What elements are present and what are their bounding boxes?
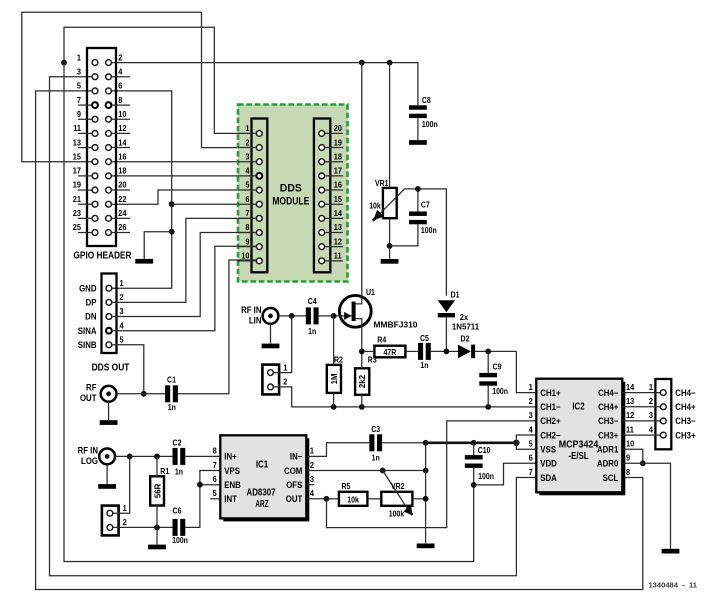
svg-text:6: 6 (245, 194, 250, 204)
svg-text:5: 5 (77, 81, 82, 91)
capacitor C8 (409, 105, 427, 118)
svg-text:CH1+: CH1+ (540, 387, 560, 398)
svg-text:SINA: SINA (78, 325, 97, 336)
svg-text:2: 2 (118, 53, 123, 63)
svg-text:DDS: DDS (280, 182, 302, 195)
connector JP1 (RF IN LIN jumper) (262, 363, 287, 394)
capacitor C9 (479, 351, 497, 407)
svg-text:IN−: IN− (290, 451, 302, 462)
label R4 value (384, 348, 397, 358)
label VR2 value (389, 509, 405, 519)
connector RF IN LIN (263, 308, 279, 324)
svg-text:2: 2 (123, 518, 128, 528)
svg-text:13: 13 (334, 223, 343, 233)
svg-text:1n: 1n (308, 327, 317, 337)
label C4 (308, 297, 318, 336)
wire JP1 pin1 to RF IN LIN node (273, 316, 291, 373)
svg-text:ADR0: ADR0 (597, 458, 619, 469)
wire GPIO6 ground drop (111, 91, 174, 288)
svg-text:6: 6 (213, 475, 218, 485)
label R4 (377, 335, 387, 345)
label R1 value (153, 483, 162, 498)
label C2 (173, 438, 184, 476)
svg-text:13: 13 (73, 138, 82, 148)
label 2x 1N5711 (452, 312, 480, 331)
wire net 5V GPIO2 row (111, 60, 418, 106)
svg-text:LOG: LOG (81, 456, 98, 467)
svg-text:COM: COM (284, 465, 302, 476)
svg-text:100n: 100n (492, 387, 508, 397)
svg-text:U1: U1 (366, 288, 375, 298)
svg-text:15: 15 (334, 194, 343, 204)
svg-text:7: 7 (77, 95, 82, 105)
svg-text:7: 7 (529, 467, 534, 477)
svg-text:IN+: IN+ (224, 451, 236, 462)
svg-text:SDA: SDA (540, 472, 557, 483)
svg-text:10: 10 (118, 110, 127, 120)
svg-text:1n: 1n (372, 453, 381, 463)
svg-text:10: 10 (626, 439, 635, 449)
capacitor C5 (418, 343, 431, 360)
svg-text:2: 2 (245, 138, 250, 148)
label RF OUT (80, 382, 97, 403)
wire JP1 pin2 to CH1- rail (273, 387, 536, 410)
resistor R1 (150, 456, 164, 527)
svg-text:10k: 10k (347, 495, 359, 505)
svg-text:C6: C6 (173, 506, 182, 516)
svg-text:100n: 100n (172, 535, 188, 545)
label IC2 (572, 401, 584, 413)
label R2 (334, 355, 343, 365)
label D2 (461, 334, 470, 344)
svg-text:6: 6 (118, 81, 123, 91)
wire GPIO18 to DDS pin4 (111, 175, 256, 177)
svg-text:VPS: VPS (224, 465, 240, 476)
wire C6 to VPS and ENB (185, 471, 220, 528)
svg-text:MMBFJ310: MMBFJ310 (374, 320, 419, 330)
wire C5 to D2 junction (431, 349, 458, 355)
svg-text:VR2: VR2 (391, 482, 405, 492)
wire C3 to VSS bus thin part (382, 442, 425, 444)
svg-text:CH4+: CH4+ (675, 402, 695, 413)
svg-text:3: 3 (529, 411, 534, 421)
svg-text:1: 1 (529, 382, 534, 392)
capacitor C3 (369, 434, 382, 451)
diode D2 (458, 345, 475, 359)
svg-text:R2: R2 (334, 355, 343, 365)
svg-text:CH2−: CH2− (540, 430, 560, 441)
svg-text:5: 5 (213, 489, 218, 499)
svg-text:1: 1 (123, 504, 128, 514)
svg-text:C3: C3 (371, 424, 380, 434)
DDS module left pin header (238, 119, 267, 273)
svg-text:VR1: VR1 (375, 178, 389, 188)
ground under ADR0 (662, 549, 680, 554)
label R5 value (347, 495, 359, 505)
svg-text:SCL: SCL (603, 472, 619, 483)
svg-text:AD8307: AD8307 (246, 487, 275, 499)
svg-text:19: 19 (334, 138, 343, 148)
svg-text:IC1: IC1 (256, 459, 269, 471)
svg-text:CH4−: CH4− (598, 387, 618, 398)
svg-text:20: 20 (118, 180, 127, 190)
svg-text:C9: C9 (493, 362, 502, 372)
IC1 pin labels (213, 446, 315, 504)
svg-text:1: 1 (310, 446, 315, 456)
svg-text:CH1−: CH1− (540, 402, 560, 413)
svg-text:SINB: SINB (78, 340, 97, 351)
svg-text:26: 26 (118, 223, 127, 233)
svg-text:11: 11 (626, 425, 634, 435)
wire VR1 bottom to ground (387, 218, 393, 259)
svg-text:2: 2 (283, 377, 288, 387)
svg-text:4: 4 (245, 166, 250, 176)
svg-text:1n: 1n (420, 360, 429, 370)
svg-text:CH4−: CH4− (675, 387, 695, 398)
svg-text:12: 12 (118, 124, 127, 134)
label C3 (371, 424, 380, 462)
wire RF OUT ground stem (108, 402, 110, 420)
IC2 pin labels (529, 382, 635, 483)
label R5 (342, 482, 351, 492)
capacitor C1 (165, 385, 178, 402)
wire ADR0 to ground (622, 463, 670, 548)
svg-text:14: 14 (334, 209, 343, 219)
svg-text:18: 18 (118, 166, 127, 176)
svg-text:21: 21 (73, 194, 82, 204)
label U1 (366, 288, 375, 298)
potentiometer VR2 (381, 471, 412, 516)
wire RF IN LOG ground stem (106, 464, 108, 484)
svg-text:11: 11 (334, 251, 342, 261)
svg-text:C2: C2 (173, 438, 182, 448)
svg-text:1n: 1n (168, 403, 177, 413)
ground under RF OUT (100, 420, 118, 425)
svg-text:3: 3 (310, 475, 315, 485)
wire JP2 pin1 up to IN+ node (113, 456, 130, 513)
svg-text:3: 3 (77, 67, 82, 77)
svg-text:4: 4 (529, 425, 534, 435)
svg-text:CH4+: CH4+ (598, 402, 618, 413)
svg-text:2: 2 (529, 397, 534, 407)
connector RF IN LOG (99, 449, 115, 465)
label R3 value (358, 374, 367, 388)
svg-text:1M: 1M (330, 373, 339, 384)
svg-text:17: 17 (334, 166, 343, 176)
svg-text:1: 1 (120, 278, 125, 288)
svg-text:D1: D1 (451, 290, 460, 300)
wire DDS pin6 to ground vertical (172, 203, 257, 205)
svg-text:2: 2 (310, 460, 315, 470)
wire IC1 INT stub (210, 498, 220, 500)
potentiometer VR1 (373, 188, 447, 296)
diode D1 (438, 300, 455, 351)
svg-text:4: 4 (118, 67, 123, 77)
svg-text:VSS: VSS (540, 444, 556, 455)
svg-text:CH3−: CH3− (675, 416, 695, 427)
svg-text:C8: C8 (422, 96, 431, 106)
label C9 (492, 362, 508, 396)
svg-text:2k2: 2k2 (358, 374, 367, 388)
svg-text:100k: 100k (389, 509, 405, 519)
svg-text:C7: C7 (421, 200, 430, 210)
svg-text:C10: C10 (478, 445, 491, 455)
svg-text:47R: 47R (384, 348, 397, 358)
wire D2 to C9 node (475, 349, 516, 355)
svg-text:56R: 56R (153, 483, 162, 498)
DDS module right pin header (314, 119, 343, 273)
svg-text:9: 9 (245, 237, 250, 247)
wire C8 to ground (417, 118, 419, 140)
svg-text:3: 3 (120, 307, 125, 317)
svg-text:ADR1: ADR1 (597, 444, 619, 455)
connector GPIO HEADER (73, 48, 130, 246)
DDS module outline (green dashed) (238, 105, 348, 282)
svg-text:6: 6 (529, 453, 534, 463)
svg-text:24: 24 (118, 209, 127, 219)
svg-text:1340484 - 11: 1340484 - 11 (648, 581, 697, 590)
wire 5V drop to VR1 (389, 63, 391, 188)
capacitor C2 (173, 448, 186, 465)
svg-text:RF IN: RF IN (241, 305, 261, 316)
wire IC1 IN- to C3 (306, 443, 369, 457)
svg-text:RF IN: RF IN (78, 445, 98, 456)
svg-text:22: 22 (118, 194, 127, 204)
svg-text:12: 12 (626, 411, 635, 421)
svg-text:19: 19 (73, 180, 82, 190)
ground under R1 (148, 545, 166, 550)
wire DDS OUT DN to DDS pin8 (112, 233, 257, 317)
svg-text:9: 9 (77, 110, 82, 120)
wire net 3V3 top loop to DDS pin1 (61, 27, 256, 133)
wire CH1+ from D2 node (516, 351, 536, 392)
connector DDS OUT (78, 274, 124, 354)
transistor U1 MMBFJ310 (331, 295, 371, 351)
wire fork to CH2- and VSS (516, 435, 536, 449)
svg-text:1: 1 (649, 382, 654, 392)
svg-text:14: 14 (626, 382, 635, 392)
svg-text:13: 13 (626, 397, 635, 407)
wire C10 bottom to VDD (474, 463, 537, 485)
svg-text:20: 20 (334, 124, 343, 134)
svg-text:CH3+: CH3+ (598, 430, 618, 441)
wire DDS OUT DP to DDS pin7 (112, 218, 257, 302)
ground under C8 (409, 140, 427, 145)
svg-text:1: 1 (283, 363, 288, 373)
svg-text:5: 5 (245, 180, 250, 190)
wire RF IN LIN ground stem (270, 324, 272, 344)
svg-text:4: 4 (120, 321, 125, 331)
svg-text:VDD: VDD (540, 458, 557, 469)
svg-text:1N5711: 1N5711 (452, 322, 480, 332)
wire VR2 to ground vertical (412, 498, 425, 500)
svg-text:12: 12 (334, 237, 343, 247)
svg-text:5: 5 (120, 335, 125, 345)
label R2 value (330, 373, 339, 384)
resistor R5 (327, 492, 382, 506)
svg-text:3: 3 (649, 411, 654, 421)
svg-text:1: 1 (245, 124, 250, 134)
label DDS MODULE (272, 182, 309, 208)
label MMBFJ310 (374, 320, 419, 330)
svg-text:-E/SL: -E/SL (568, 450, 588, 462)
svg-text:GPIO HEADER: GPIO HEADER (73, 250, 131, 262)
label C1 (167, 375, 176, 412)
capacitor C6 (173, 519, 186, 536)
svg-text:16: 16 (334, 180, 343, 190)
svg-text:LIN: LIN (249, 315, 262, 326)
svg-text:2: 2 (120, 293, 125, 303)
svg-text:IC2: IC2 (572, 401, 584, 413)
svg-text:R4: R4 (377, 335, 387, 345)
ground under RF IN LOG (98, 484, 116, 489)
svg-text:C4: C4 (308, 297, 318, 307)
svg-text:1: 1 (77, 53, 82, 63)
resistor R4 (359, 346, 406, 358)
ground under GPIO (135, 259, 153, 264)
svg-text:CH2+: CH2+ (540, 416, 560, 427)
svg-text:15: 15 (73, 152, 82, 162)
adc IC2 MCP3424 (536, 379, 625, 496)
label C10 (478, 445, 495, 481)
svg-text:8: 8 (118, 95, 123, 105)
svg-text:14: 14 (118, 138, 127, 148)
capacitor C4 (306, 307, 319, 324)
svg-text:INT: INT (224, 494, 237, 505)
capacitor C7 (390, 186, 427, 246)
svg-text:17: 17 (73, 166, 82, 176)
label VR2 (391, 482, 405, 492)
svg-text:100n: 100n (478, 471, 494, 481)
wire RF OUT to C1 (117, 393, 166, 395)
ground under bus (417, 544, 435, 549)
connector RF OUT (101, 386, 117, 402)
wire net 3V3 GPIO1 left rail (64, 63, 474, 562)
svg-text:D2: D2 (461, 334, 470, 344)
wire 5V drop to U1 drain (361, 63, 363, 296)
svg-text:16: 16 (118, 152, 127, 162)
svg-text:RF: RF (86, 382, 96, 393)
svg-text:2x: 2x (460, 312, 469, 322)
label VR1 value (369, 201, 381, 211)
ground under VR1 (381, 259, 399, 264)
svg-text:GND: GND (79, 283, 96, 294)
wire RF IN LIN to C4 (278, 313, 306, 319)
wire R4 to C5 (405, 350, 418, 352)
wire DDS OUT SINA to DDS pin9 (112, 246, 257, 330)
wire ADR1 to ADR0 (622, 449, 645, 466)
svg-text:CH3+: CH3+ (675, 430, 695, 441)
wire net GPIO15 top loop to DDS pin2 (22, 12, 257, 162)
svg-text:8: 8 (626, 467, 631, 477)
svg-text:ARZ: ARZ (255, 498, 268, 510)
wire JP2 pin2 to C6 row (113, 525, 173, 531)
svg-text:7: 7 (213, 460, 218, 470)
wire IC1 OUT to CH2+ (306, 421, 536, 528)
label board number 1340484-11 (648, 581, 697, 590)
label D1 (451, 290, 460, 300)
label C7 (421, 200, 437, 235)
wire ground tap near GPIO (144, 232, 172, 259)
label GPIO HEADER (73, 250, 131, 262)
capacitor C10 (465, 443, 483, 488)
wire IC1 OFS stub (306, 484, 314, 486)
label R1 (160, 467, 169, 477)
label C8 (422, 96, 438, 129)
wire net GPIO3-SDA segment (50, 77, 537, 576)
ground vertical below bus (423, 443, 429, 544)
wire GPIO16 to DDS pin3 (111, 161, 256, 163)
svg-text:C1: C1 (167, 375, 176, 385)
wire C1 to DDS pin10 (178, 260, 257, 394)
svg-text:ENB: ENB (224, 480, 241, 491)
svg-text:DP: DP (86, 297, 97, 308)
svg-text:DN: DN (85, 311, 96, 322)
label R3 (368, 355, 377, 365)
wire C2 to IC1 IN+ (185, 455, 220, 457)
svg-text:10k: 10k (369, 201, 381, 211)
svg-text:4: 4 (310, 489, 315, 499)
ground under RF IN LIN (262, 344, 280, 349)
label DDS OUT (92, 362, 130, 374)
svg-text:MCP3424: MCP3424 (559, 439, 599, 451)
svg-text:R1: R1 (160, 467, 169, 477)
svg-text:18: 18 (334, 152, 343, 162)
svg-text:100n: 100n (421, 225, 437, 235)
svg-text:7: 7 (245, 209, 250, 219)
wire GPIO22 jog to DDS pin5 (111, 190, 256, 204)
svg-text:25: 25 (73, 223, 82, 233)
label C5 (420, 333, 429, 370)
label RF IN LOG (78, 445, 98, 466)
svg-text:8: 8 (213, 446, 218, 456)
resistor R2 (327, 316, 341, 407)
label MCP3424 -E/SL (559, 439, 599, 462)
wire net GPIO5-SCL top-left segment (36, 91, 643, 590)
svg-text:OUT: OUT (80, 392, 97, 403)
label AD8307 ARZ (246, 487, 275, 510)
svg-text:2: 2 (649, 397, 654, 407)
svg-text:5: 5 (529, 439, 534, 449)
wire C4 to U1 gate (318, 315, 333, 317)
label RF IN LIN (241, 305, 261, 326)
label C6 (172, 506, 188, 545)
connector CH4/CH3 header (622, 379, 695, 449)
svg-text:CH3−: CH3− (598, 416, 618, 427)
label IC1 (256, 459, 269, 471)
svg-text:1n: 1n (175, 467, 184, 477)
op-amp IC1 AD8307 (220, 435, 309, 521)
svg-text:10: 10 (241, 251, 250, 261)
svg-text:23: 23 (73, 209, 82, 219)
svg-text:C5: C5 (420, 333, 429, 343)
wire R1 ground stem (156, 527, 158, 544)
svg-text:DDS OUT: DDS OUT (92, 362, 130, 374)
svg-text:MODULE: MODULE (272, 195, 309, 208)
resistor R3 (355, 351, 369, 407)
wire IC1 COM to ground vertical (306, 468, 428, 474)
wire RF IN LOG to C2 (115, 454, 172, 460)
svg-text:OUT: OUT (286, 494, 303, 505)
svg-text:OFS: OFS (286, 480, 302, 491)
connector JP2 (RF IN LOG jumper) (102, 504, 127, 536)
svg-text:R5: R5 (342, 482, 351, 492)
svg-text:8: 8 (245, 223, 250, 233)
svg-text:4: 4 (649, 425, 654, 435)
svg-text:9: 9 (626, 453, 631, 463)
wire DDS OUT SINB to RF OUT node (112, 345, 147, 397)
svg-text:100n: 100n (422, 119, 438, 129)
